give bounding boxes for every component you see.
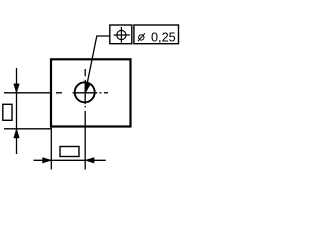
left dimension upper arrowhead (points down): [14, 84, 19, 93]
bottom dimension line (continuous horizontal): [34, 159, 106, 161]
feature control frame box 1 (symbol cell): [110, 25, 132, 44]
position symbol: [114, 27, 130, 43]
leader arrowhead at hole center: [85, 83, 90, 92]
left dimension lower arrowhead (points up): [14, 129, 19, 138]
bottom dimension left extension line: [50, 128, 52, 170]
diameter symbol: [138, 33, 145, 41]
left dimension line (continuous vertical): [16, 68, 18, 154]
feature control frame box 2 (tolerance cell): [134, 25, 179, 44]
bottom basic dimension box (empty): [60, 147, 79, 157]
bottom dimension left arrowhead (points right): [43, 158, 52, 163]
bottom dimension right arrowhead (points left): [85, 158, 94, 163]
left basic dimension box (empty): [3, 104, 12, 120]
svg-text:0,25: 0,25: [151, 30, 176, 44]
hole circle: [75, 82, 95, 102]
horizontal centerline (dash-dot through hole, doubles as left dim top extension): [4, 92, 108, 94]
left dimension bottom extension line: [4, 128, 52, 130]
leader line from FCF to hole: [87, 36, 110, 84]
vertical centerline (dash-dot through hole, continues as bottom dim right extension): [84, 69, 86, 170]
part outline rectangle: [51, 59, 131, 126]
